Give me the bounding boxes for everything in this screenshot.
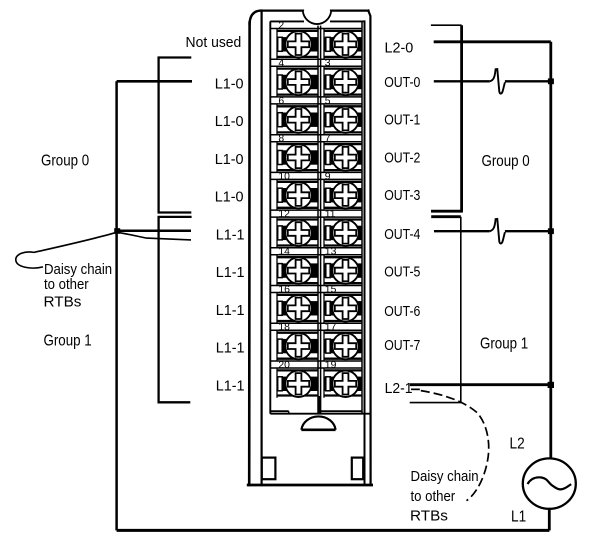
wire: OUT-4 load circuit bbox=[434, 219, 551, 244]
svg-text:OUT-3: OUT-3 bbox=[384, 187, 421, 203]
svg-text:10: 10 bbox=[278, 171, 290, 182]
svg-text:RTBs: RTBs bbox=[44, 293, 82, 310]
RTB left mounting foot bbox=[262, 458, 276, 480]
terminal 10 screw bbox=[277, 171, 318, 208]
terminal 15 screw bbox=[324, 284, 362, 321]
svg-text:OUT-2: OUT-2 bbox=[384, 149, 420, 165]
keying notch at top of RTB bbox=[303, 11, 331, 24]
terminal area inner frame bbox=[270, 21, 364, 413]
svg-text:19: 19 bbox=[325, 360, 337, 371]
terminal 9 screw bbox=[324, 171, 362, 208]
svg-text:4: 4 bbox=[278, 58, 284, 69]
wire: Group 1 jumper bracket (L1-1 commons) bbox=[159, 217, 192, 402]
svg-text:L1-0: L1-0 bbox=[215, 114, 244, 130]
svg-text:8: 8 bbox=[278, 134, 284, 145]
terminal 17 screw bbox=[324, 322, 362, 359]
daisy chain leader (left) bbox=[16, 232, 191, 268]
svg-text:Not used: Not used bbox=[186, 35, 242, 52]
separator band above terminals 12/11 bbox=[270, 210, 362, 217]
terminal 4 screw bbox=[277, 58, 318, 95]
wire: L1 feed stub to L1-1 terminal bbox=[117, 230, 191, 233]
wire: right Group 0 bracket vertical bbox=[460, 25, 463, 211]
svg-text:to other: to other bbox=[44, 275, 89, 292]
RTB right mounting foot bbox=[352, 458, 363, 480]
terminal 3 screw bbox=[324, 58, 362, 95]
RTB bottom bar bbox=[270, 396, 371, 414]
svg-text:RTBs: RTBs bbox=[410, 507, 448, 524]
wire: L2-1 feed from L2 bus bbox=[410, 383, 551, 386]
separator band above terminals 4/3 bbox=[270, 59, 362, 66]
svg-text:L1-1: L1-1 bbox=[216, 265, 245, 281]
svg-text:OUT-4: OUT-4 bbox=[384, 226, 421, 242]
svg-text:OUT-0: OUT-0 bbox=[384, 74, 421, 90]
wire: right Group 0 bracket top stub bbox=[431, 24, 462, 26]
terminal 13 screw bbox=[324, 247, 362, 284]
svg-text:L1-1: L1-1 bbox=[216, 303, 245, 319]
wire: right Group 1 bracket bottom stub bbox=[410, 402, 461, 404]
separator band above terminals 6/5 bbox=[270, 97, 362, 104]
separator band above terminals 10/9 bbox=[270, 172, 362, 179]
svg-text:7: 7 bbox=[325, 134, 331, 145]
svg-text:3: 3 bbox=[325, 58, 331, 69]
svg-text:16: 16 bbox=[278, 284, 290, 295]
svg-text:13: 13 bbox=[325, 247, 337, 258]
separator band above terminals 16/15 bbox=[270, 286, 362, 293]
junction dot L2-1 on L2 bus bbox=[548, 382, 554, 388]
svg-text:L1: L1 bbox=[511, 509, 526, 526]
svg-text:L2-1: L2-1 bbox=[385, 381, 413, 398]
terminal 19 screw bbox=[324, 360, 362, 397]
terminal 12 screw bbox=[277, 209, 318, 246]
svg-text:Group 0: Group 0 bbox=[482, 153, 530, 170]
svg-text:2: 2 bbox=[278, 20, 284, 31]
svg-text:L2: L2 bbox=[510, 436, 525, 453]
svg-text:17: 17 bbox=[325, 322, 337, 333]
terminal 8 screw bbox=[277, 134, 318, 171]
svg-text:L1-1: L1-1 bbox=[216, 340, 245, 356]
terminal 16 screw bbox=[277, 284, 318, 321]
wire: L2-0 feed from L2 bus bbox=[434, 40, 551, 43]
svg-text:L1-0: L1-0 bbox=[215, 76, 244, 92]
svg-text:15: 15 bbox=[325, 284, 337, 295]
terminal 18 screw bbox=[277, 322, 318, 359]
svg-text:9: 9 bbox=[325, 171, 331, 182]
RTB bottom dome detent bbox=[301, 416, 335, 429]
svg-text:to other: to other bbox=[411, 487, 456, 504]
svg-text:Group 0: Group 0 bbox=[41, 152, 89, 169]
daisy chain leader (right) bbox=[411, 389, 489, 500]
svg-text:L1-1: L1-1 bbox=[216, 378, 245, 394]
svg-text:11: 11 bbox=[325, 209, 336, 220]
svg-text:Group 1: Group 1 bbox=[480, 336, 528, 353]
wire: L1 vertical bus bbox=[115, 81, 118, 530]
svg-text:Daisy chain: Daisy chain bbox=[411, 467, 479, 484]
terminal 11 screw bbox=[324, 209, 362, 246]
terminal 1 screw bbox=[324, 31, 362, 58]
svg-text:L1-0: L1-0 bbox=[215, 152, 244, 168]
separator band above terminals 18/17 bbox=[270, 323, 362, 330]
svg-text:L2-0: L2-0 bbox=[385, 40, 414, 56]
svg-text:14: 14 bbox=[278, 247, 290, 258]
AC source L1/L2 bbox=[523, 458, 576, 530]
terminal 7 screw bbox=[324, 134, 362, 171]
terminal 20 screw bbox=[277, 360, 318, 397]
svg-text:OUT-7: OUT-7 bbox=[384, 337, 420, 353]
separator band above terminals 14/13 bbox=[270, 248, 362, 255]
svg-text:L1-1: L1-1 bbox=[216, 227, 245, 243]
junction dot on L1 bus bbox=[114, 228, 120, 234]
wire: right Group 0 bracket bottom stub bbox=[431, 210, 463, 213]
svg-text:12: 12 bbox=[278, 209, 290, 220]
wire: right Group 1 bracket vertical bbox=[460, 217, 462, 403]
svg-text:OUT-5: OUT-5 bbox=[384, 263, 421, 279]
svg-text:OUT-6: OUT-6 bbox=[384, 303, 421, 319]
wire: right Group 1 bracket top stub bbox=[431, 215, 461, 218]
svg-text:OUT-1: OUT-1 bbox=[384, 111, 420, 127]
svg-text:20: 20 bbox=[278, 360, 290, 371]
terminal 14 screw bbox=[277, 247, 318, 284]
svg-text:Group 1: Group 1 bbox=[44, 333, 92, 350]
wire: L1 feed stub to L1-0 terminal bbox=[117, 80, 192, 83]
terminal 5 screw bbox=[324, 96, 362, 133]
svg-text:18: 18 bbox=[278, 322, 290, 333]
wire: bottom L1 run to source bbox=[117, 529, 550, 532]
svg-text:L1-0: L1-0 bbox=[215, 189, 244, 205]
terminal block outer housing shell bbox=[248, 11, 371, 485]
wire: L2 vertical bus bbox=[549, 42, 552, 459]
svg-text:6: 6 bbox=[278, 96, 284, 107]
separator band above terminals 20/19 bbox=[270, 361, 362, 368]
terminal 2 screw bbox=[277, 20, 318, 57]
svg-text:5: 5 bbox=[325, 96, 331, 107]
junction dot OUT-4 on L2 bus bbox=[548, 228, 554, 234]
terminal 6 screw bbox=[277, 96, 318, 133]
wire: Group 0 jumper bracket (L1-0 commons) bbox=[159, 58, 192, 213]
junction dot OUT-0 on L2 bus bbox=[548, 78, 554, 84]
separator band above terminals 8/7 bbox=[270, 135, 362, 142]
separator band above terminals 2/1 bbox=[270, 22, 362, 29]
wire: OUT-0 load circuit bbox=[434, 69, 551, 94]
